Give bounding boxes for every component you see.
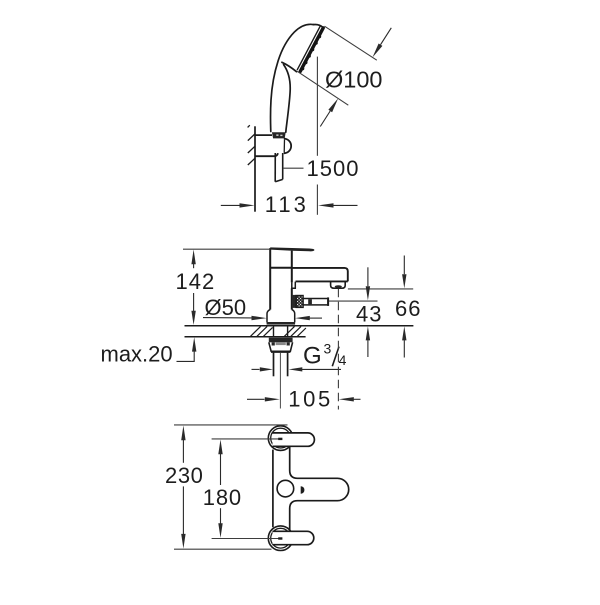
lever handle blade <box>270 247 314 251</box>
head bottom edge <box>282 62 297 71</box>
escutcheon skirt <box>267 310 295 323</box>
extension line rod level <box>329 300 378 302</box>
center ticks <box>278 438 282 440</box>
bottom union capsule <box>273 531 314 544</box>
rod detent <box>308 299 312 304</box>
svg-text:3: 3 <box>324 341 332 357</box>
dimension 230 line with arrows <box>181 426 185 549</box>
svg-text:max.20: max.20 <box>101 342 173 367</box>
deck bottom line <box>185 336 306 338</box>
svg-text:142: 142 <box>176 269 216 294</box>
bottom inlet circle <box>268 526 293 551</box>
diverter rod <box>303 299 328 305</box>
body left edge <box>272 450 274 528</box>
dimension Ø100 extension lines <box>297 26 377 105</box>
dimension max.20 leader <box>177 337 197 361</box>
svg-text:180: 180 <box>203 485 242 510</box>
shower head face plate (thick) <box>300 28 323 71</box>
hose <box>275 138 283 181</box>
label G 3/4 with leader <box>252 367 342 371</box>
dimension 142 upper arrow <box>191 250 195 269</box>
dimension Ø50 right arrow <box>295 316 322 320</box>
shower head back outline <box>271 24 314 131</box>
svg-text:4: 4 <box>339 352 347 368</box>
svg-text:66: 66 <box>395 296 421 321</box>
svg-text:230: 230 <box>165 463 204 488</box>
wall holder (white bracket over hose) <box>256 136 284 153</box>
svg-text:43: 43 <box>356 301 382 326</box>
spray nozzles on face <box>301 35 321 71</box>
svg-text:Ø50: Ø50 <box>205 295 247 320</box>
svg-text:1500: 1500 <box>307 156 360 181</box>
dimension 43 upper arrow <box>366 267 370 300</box>
spout <box>292 268 348 282</box>
svg-text:Ø100: Ø100 <box>325 66 383 92</box>
shank centerline <box>279 353 281 409</box>
dimension 113 right arrow <box>318 203 357 207</box>
threaded shank tube <box>274 353 288 377</box>
dimension 66 upper arrow <box>402 256 406 289</box>
svg-text:G: G <box>303 343 322 370</box>
spout outlet (mousseur) <box>331 282 346 289</box>
spout step notch <box>292 282 296 289</box>
diverter flange <box>293 295 296 308</box>
shower head face inner line <box>297 26 320 69</box>
outlet ellipse <box>335 285 342 288</box>
D mark <box>301 486 305 494</box>
dimension 142 top extension line <box>183 248 270 250</box>
dimension Ø100 lower arrow <box>320 98 338 126</box>
top inlet circle <box>268 426 293 451</box>
diverter knob (knurled) <box>296 296 303 308</box>
holder top edge <box>255 134 272 136</box>
cartridge knob circle <box>277 480 294 497</box>
hose connector nut <box>272 132 286 138</box>
dimension 142 lower arrow <box>191 293 195 325</box>
svg-text:105: 105 <box>288 386 333 411</box>
dimension 113 left arrow <box>221 203 255 207</box>
wall hatching <box>248 125 255 165</box>
mounting nut <box>269 338 293 343</box>
dimension Ø100 upper arrow <box>373 28 392 58</box>
dimension 180 line with arrows <box>218 440 222 538</box>
dashed line from outlet <box>337 289 339 410</box>
body right edge with spout arm <box>290 447 349 531</box>
escutcheon bottom flange <box>267 322 296 325</box>
top union capsule <box>273 433 315 446</box>
dimension 105 left arrow <box>247 397 280 401</box>
leader line 1500 <box>283 167 304 169</box>
shower head top cap <box>314 25 324 28</box>
deck top line <box>185 325 414 327</box>
dimension Ø50 leader <box>203 316 267 320</box>
shank through deck <box>274 326 288 336</box>
dimension 105 right arrow <box>339 397 361 401</box>
holder ring bulge <box>284 139 291 154</box>
extension line outlet level <box>348 288 413 290</box>
svg-text:113: 113 <box>265 192 309 217</box>
dimension 43 lower arrow <box>366 326 370 357</box>
holder ring front edge <box>283 140 285 153</box>
holder bottom edge <box>255 153 278 156</box>
rod end cap <box>327 297 329 306</box>
dimension 230 extension lines <box>174 425 288 549</box>
dimension 180 extension lines <box>212 439 279 539</box>
faucet body column <box>270 248 292 310</box>
wall line <box>254 126 256 211</box>
deck hatching <box>251 326 306 336</box>
vertical extension line through shower axis <box>316 57 318 215</box>
handle right edge <box>284 65 291 133</box>
dimension 66 lower arrow <box>402 326 406 357</box>
body top block <box>269 248 271 310</box>
